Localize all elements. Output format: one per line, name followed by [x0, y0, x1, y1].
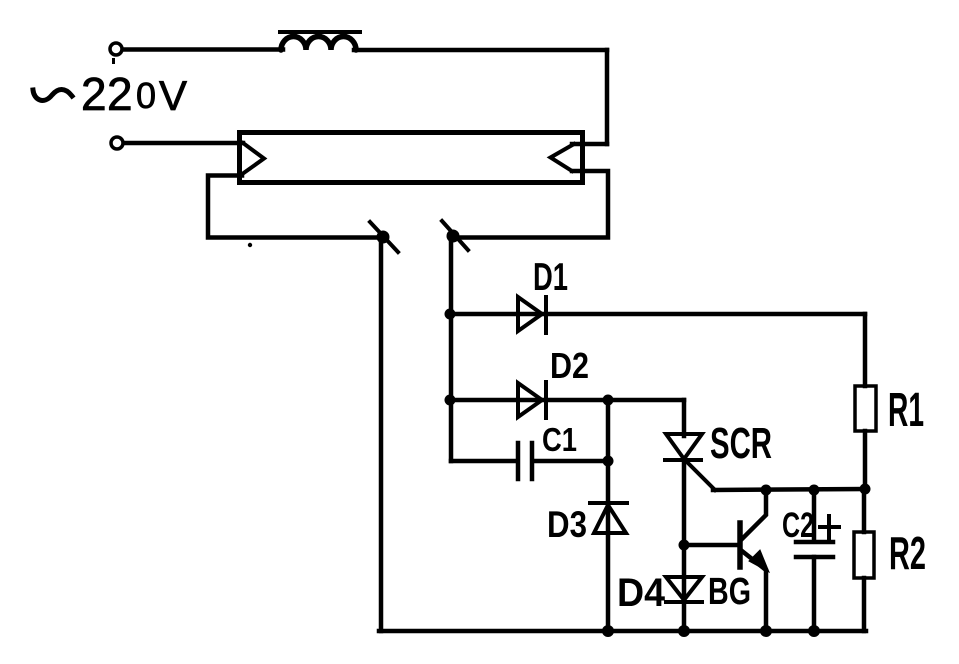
- svg-text:D4: D4: [617, 571, 666, 615]
- svg-text:2: 2: [107, 68, 133, 120]
- svg-text:0: 0: [136, 75, 156, 116]
- svg-text:R1: R1: [888, 384, 924, 437]
- svg-text:D3: D3: [547, 504, 587, 545]
- svg-text:C1: C1: [542, 421, 577, 458]
- svg-text:D2: D2: [550, 345, 589, 386]
- svg-text:SCR: SCR: [710, 419, 772, 468]
- svg-text:V: V: [159, 72, 187, 119]
- svg-text:D1: D1: [533, 256, 568, 299]
- svg-text:R2: R2: [889, 527, 926, 579]
- svg-text:BG: BG: [708, 571, 751, 613]
- svg-text:C2: C2: [782, 506, 814, 545]
- svg-text:2: 2: [81, 68, 107, 120]
